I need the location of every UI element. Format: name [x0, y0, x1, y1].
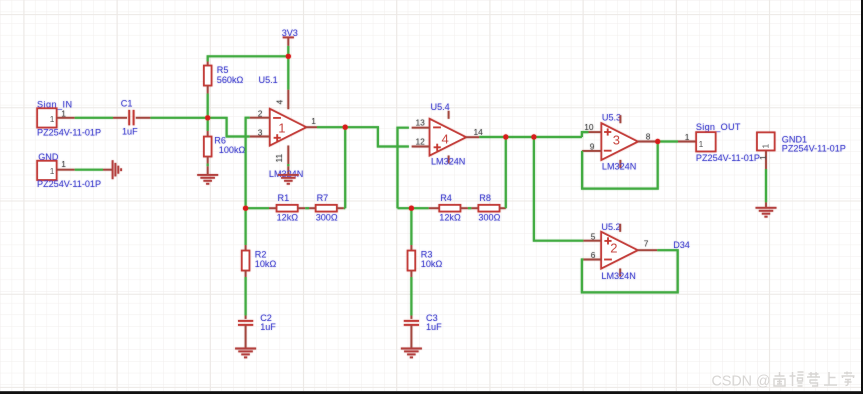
R2 top lead	[245, 245, 247, 251]
power stub top (U5.4)	[448, 111, 450, 119]
svg-text:U5.2: U5.2	[601, 222, 620, 232]
wire 3V3 to node	[287, 46, 289, 56]
svg-text:1uF: 1uF	[122, 127, 138, 137]
svg-text:1: 1	[311, 116, 316, 126]
R2 bottom lead	[245, 271, 247, 278]
resistor R8	[478, 205, 499, 212]
svg-text:CSDN @: CSDN @	[712, 374, 771, 390]
resistor R1	[277, 205, 298, 212]
svg-text:4: 4	[442, 132, 449, 147]
junction to U5.2 branch	[531, 134, 536, 139]
wire pin 11 to ground	[287, 164, 289, 166]
wire R7 to feedback	[344, 207, 345, 209]
svg-text:LM324N: LM324N	[431, 157, 465, 167]
R8 right lead	[500, 207, 506, 209]
wire U5.1 output to U5.4 pin 12	[345, 127, 409, 146]
op-amp U5.3 (LM324N)	[601, 123, 638, 160]
wire node A down to R2	[245, 208, 247, 245]
resistor R4	[439, 205, 460, 212]
svg-text:PZ254V-11-01P: PZ254V-11-01P	[37, 179, 101, 189]
wire feedback U5.1 output down to R7	[344, 127, 346, 208]
R4 right lead	[460, 207, 468, 209]
svg-text:R7: R7	[317, 193, 329, 203]
R7 right lead	[337, 207, 344, 209]
pin 7 (output) of U5.2	[638, 249, 658, 251]
R6 top lead	[207, 131, 209, 137]
svg-text:12: 12	[416, 136, 426, 146]
wire 3V3 node to R5 top	[208, 56, 289, 61]
pin 11 of U5.1	[287, 146, 289, 165]
pin 1 of GND1 connector	[765, 151, 767, 169]
svg-text:1: 1	[699, 139, 704, 149]
C1 right lead	[136, 117, 151, 119]
wire Sign_IN to C1	[75, 117, 113, 119]
svg-text:LM324N: LM324N	[602, 161, 636, 171]
plus sign (U5.4 pin 12)	[434, 144, 441, 151]
svg-text:C1: C1	[121, 99, 133, 109]
junction U5.1 output node	[343, 125, 348, 130]
wire feedback U5.2 output to pin 6 (net D34)	[582, 250, 678, 292]
R5 top lead	[207, 62, 209, 66]
wire R2 to C2	[245, 277, 247, 316]
power stub bottom (U5.4)	[448, 156, 450, 164]
wire node B down to R3	[410, 208, 412, 245]
plus sign (U5.3 pin 10)	[604, 128, 611, 135]
svg-text:PZ254V-11-01P: PZ254V-11-01P	[696, 153, 760, 163]
C3 top lead	[410, 316, 412, 319]
wire R6 to ground	[207, 164, 209, 167]
svg-text:300Ω: 300Ω	[316, 213, 338, 223]
minus sign (U5.1 pin 2)	[273, 117, 281, 119]
ground (below GND1)	[756, 208, 777, 217]
R3 bottom lead	[410, 271, 412, 278]
R5 bottom lead	[207, 86, 209, 94]
svg-text:6: 6	[591, 250, 596, 260]
wire R1 to R7	[305, 207, 309, 209]
connector GND PZ254V-11-01P	[37, 161, 56, 180]
resistor R6	[204, 137, 212, 157]
wire C1 to input node	[150, 117, 207, 119]
svg-text:Sign_OUT: Sign_OUT	[696, 122, 741, 132]
ground (below pin 11)	[278, 175, 299, 184]
ground stem (pin 11)	[287, 166, 289, 175]
pin 1 (output) of U5.1	[306, 126, 317, 128]
pin 2 of U5.1	[250, 117, 270, 119]
R1 left lead	[269, 207, 277, 209]
wire down to U5.2 pin 5	[534, 137, 584, 241]
svg-text:3V3: 3V3	[282, 28, 298, 38]
svg-text:1uF: 1uF	[260, 322, 276, 332]
wire feedback U5.3 output to pin 9	[582, 142, 658, 189]
R7 left lead	[309, 207, 316, 209]
watermark CSDN	[712, 374, 771, 390]
capacitor C1	[129, 110, 133, 125]
svg-text:9: 9	[590, 141, 595, 151]
svg-text:PZ254V-11-01P: PZ254V-11-01P	[37, 128, 101, 138]
svg-text:1: 1	[50, 166, 55, 176]
connector Sign_OUT PZ254V-11-01P	[696, 132, 715, 151]
minus sign (U5.3 pin 9)	[604, 150, 612, 152]
decorative bottom border	[0, 391, 863, 394]
power stub top (U5.3)	[619, 115, 621, 123]
svg-text:10kΩ: 10kΩ	[255, 259, 277, 269]
pin 12 of U5.4	[412, 146, 430, 148]
ground (left, rotated)	[113, 160, 122, 179]
wire node B to R4	[398, 207, 429, 209]
svg-text:5: 5	[591, 231, 596, 241]
op-amp U5.1 (LM324N)	[270, 109, 307, 146]
svg-text:LM324N: LM324N	[601, 271, 635, 281]
wire R5 to input node	[207, 94, 209, 118]
svg-text:U5.3: U5.3	[602, 113, 621, 123]
watermark CJK glyphs (drawn)	[774, 372, 855, 387]
pin 6 of U5.2	[583, 259, 601, 261]
power stub bottom (U5.3)	[619, 160, 621, 168]
ground (below R6)	[197, 175, 218, 184]
pin 3 of U5.1	[250, 136, 270, 138]
wire U5.1 output	[317, 126, 345, 128]
connector P? Sign_IN PZ254V-11-01P	[37, 108, 56, 127]
ground stem (R6)	[207, 166, 209, 175]
plus sign (U5.1 pin 3)	[274, 134, 281, 141]
power port 3V3 stem	[287, 37, 289, 46]
wire node A to R1	[246, 207, 269, 209]
ground stem (GND1)	[765, 202, 767, 207]
pin 8 (output) of U5.3	[638, 141, 657, 143]
R3 top lead	[410, 245, 412, 251]
R1 right lead	[298, 207, 306, 209]
svg-text:R1: R1	[278, 193, 290, 203]
svg-text:12kΩ: 12kΩ	[277, 213, 299, 223]
power stub bottom (U5.2)	[619, 269, 621, 277]
C2 bottom lead	[245, 325, 247, 349]
svg-text:1: 1	[278, 120, 285, 135]
svg-text:PZ254V-11-01P: PZ254V-11-01P	[782, 144, 846, 154]
svg-text:1: 1	[685, 132, 690, 142]
minus sign (U5.2 pin 6)	[604, 259, 612, 261]
pin 5 of U5.2	[583, 240, 601, 242]
wire 3V3 node down to pin 4	[287, 56, 289, 89]
pin 1 of Sign_OUT connector	[678, 141, 696, 143]
resistor R3	[408, 251, 416, 271]
pin 1 of GND connector	[57, 169, 75, 171]
C2 top lead	[245, 316, 247, 319]
ground (below C2)	[235, 349, 256, 358]
svg-text:4: 4	[274, 100, 284, 105]
svg-text:1: 1	[758, 155, 768, 160]
svg-text:8: 8	[646, 131, 651, 141]
op-amp U5.2 (LM324N)	[601, 232, 638, 269]
wire U5.4 pin 13 down to node B	[398, 128, 409, 209]
capacitor C3	[404, 321, 419, 325]
pin 13 of U5.4	[412, 127, 430, 129]
pin 10 of U5.3	[589, 131, 602, 133]
svg-text:1uF: 1uF	[426, 322, 442, 332]
junction U5.3 output	[655, 139, 660, 144]
svg-text:1: 1	[61, 109, 66, 119]
connector GND1 PZ254V-11-01P	[757, 132, 775, 150]
wire jog to U5.3 pin 10	[582, 132, 589, 137]
wire input node to U5.1 pin 3	[208, 118, 250, 137]
junction input node	[205, 115, 210, 120]
wire U5.4 output to U5.3	[479, 136, 582, 138]
op-amp U5.4 (LM324N)	[430, 119, 467, 156]
ground stem (left)	[103, 169, 113, 171]
power stub top (U5.2)	[619, 224, 621, 232]
svg-text:1: 1	[50, 114, 55, 124]
svg-text:7: 7	[644, 238, 649, 248]
wire input node to R6	[207, 118, 209, 131]
junction node A	[243, 206, 248, 211]
wire feedback R8 up to U5.4 output	[505, 137, 507, 208]
svg-text:10kΩ: 10kΩ	[421, 259, 443, 269]
svg-text:1: 1	[61, 159, 66, 169]
capacitor C2	[238, 321, 253, 325]
svg-text:D34: D34	[673, 240, 690, 250]
svg-text:14: 14	[474, 127, 484, 137]
svg-text:3: 3	[613, 133, 620, 148]
resistor R5	[204, 66, 212, 86]
wire GND connector to ground	[75, 169, 103, 171]
wire R4 to R8	[468, 207, 472, 209]
resistor R2	[242, 251, 250, 271]
R6 bottom lead	[207, 157, 209, 164]
svg-text:560kΩ: 560kΩ	[217, 75, 244, 85]
decorative right border	[861, 0, 863, 394]
R4 left lead	[429, 207, 440, 209]
svg-text:100kΩ: 100kΩ	[219, 145, 246, 155]
C3 bottom lead	[410, 325, 412, 349]
pin 4 of U5.1	[287, 90, 289, 110]
svg-text:R5: R5	[217, 65, 229, 75]
svg-text:13: 13	[416, 117, 426, 127]
resistor R7	[316, 205, 337, 212]
junction node B	[409, 206, 414, 211]
wire U5.1 pin 2 feedback down to node A	[246, 118, 250, 209]
junction 3V3 node	[286, 54, 291, 59]
svg-text:12kΩ: 12kΩ	[439, 213, 461, 223]
C1 left lead	[113, 117, 127, 119]
svg-text:2: 2	[258, 109, 263, 119]
svg-text:11: 11	[274, 153, 284, 162]
ground (below C3)	[401, 349, 422, 358]
pin 9 of U5.3	[582, 150, 601, 152]
plus sign (U5.2 pin 5)	[604, 237, 611, 244]
svg-text:R8: R8	[479, 193, 491, 203]
svg-text:10: 10	[584, 122, 594, 132]
wire R3 to C3	[410, 277, 412, 316]
svg-text:1: 1	[761, 144, 771, 149]
wire U5.3 output to Sign_OUT	[658, 140, 678, 142]
junction U5.4 output / R8 feedback	[503, 134, 508, 139]
svg-text:3: 3	[258, 128, 263, 138]
svg-text:U5.1: U5.1	[259, 75, 278, 85]
R8 left lead	[471, 207, 478, 209]
minus sign (U5.4 pin 13)	[433, 126, 441, 128]
wire GND1 to ground	[765, 169, 767, 202]
power port 3V3 bar	[283, 36, 294, 38]
pin 14 (output) of U5.4	[466, 136, 479, 138]
svg-text:U5.4: U5.4	[431, 102, 450, 112]
svg-text:2: 2	[610, 240, 617, 255]
svg-text:R4: R4	[440, 193, 452, 203]
svg-text:300Ω: 300Ω	[478, 213, 500, 223]
pin 1 of Sign_IN connector	[57, 117, 75, 119]
